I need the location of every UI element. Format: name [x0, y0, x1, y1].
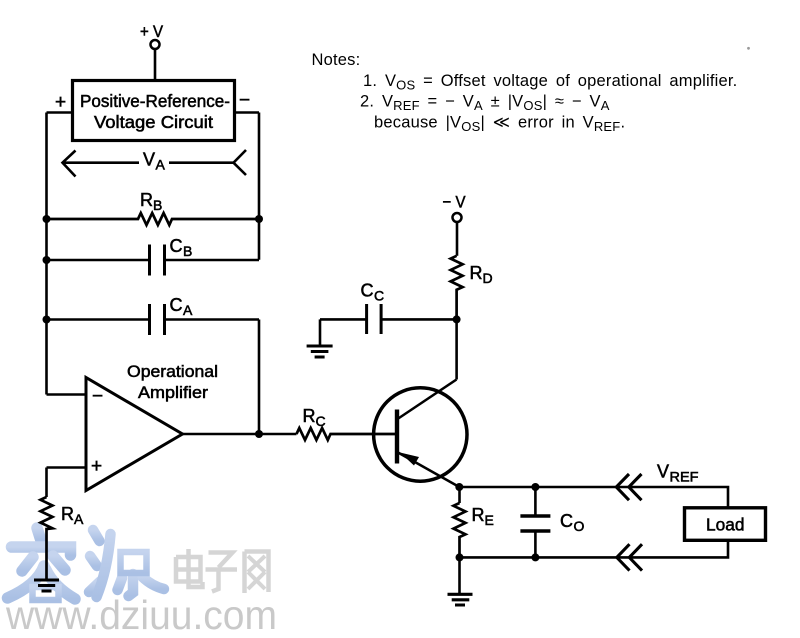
capacitor CO: [534, 487, 537, 557]
wire box right to rail: [235, 111, 260, 114]
wire op-amp output: [183, 433, 297, 436]
wire op-amp plus input: [47, 468, 87, 498]
svg-text:+: +: [91, 456, 102, 477]
svg-text:C: C: [361, 281, 374, 301]
svg-text:R: R: [470, 263, 483, 283]
svg-text:REF: REF: [670, 469, 699, 485]
resistor RC: [297, 428, 398, 440]
svg-text:R: R: [61, 504, 74, 524]
chevrons bottom rail: [617, 544, 642, 570]
svg-text:O: O: [574, 518, 585, 534]
resistor RD: [451, 256, 463, 320]
wire right rail upper: [258, 113, 261, 260]
svg-text:R: R: [140, 190, 153, 210]
svg-text:+ V: + V: [140, 22, 164, 41]
node +V terminal: [151, 40, 160, 49]
box load: [685, 508, 766, 541]
capacitor CC: [320, 318, 457, 321]
svg-text:C: C: [560, 511, 573, 531]
svg-text:R: R: [472, 505, 485, 525]
svg-text:E: E: [485, 512, 494, 528]
ground below CC: [307, 346, 333, 357]
wire emitter node down to RE: [458, 487, 461, 503]
svg-text:Positive-Reference-: Positive-Reference-: [80, 91, 230, 111]
box positive reference voltage circuit: [73, 81, 235, 141]
svg-text:V: V: [657, 462, 669, 482]
svg-text:A: A: [156, 157, 166, 173]
wire load to bottom rail: [460, 540, 729, 557]
wire CC left to ground: [319, 319, 322, 344]
svg-text:A: A: [183, 302, 193, 318]
wire op-amp minus input: [47, 393, 87, 396]
svg-text:R: R: [303, 406, 316, 426]
svg-text:Amplifier: Amplifier: [138, 383, 208, 402]
svg-text:because |VOS| ≪ error in VREF.: because |VOS| ≪ error in VREF.: [374, 114, 625, 135]
watermark 容: [8, 528, 76, 599]
ground below RA: [34, 580, 59, 591]
watermark 电子网: [176, 549, 269, 593]
wire left rail: [45, 113, 48, 395]
svg-text:Voltage Circuit: Voltage Circuit: [94, 112, 213, 132]
svg-text:−: −: [92, 386, 103, 407]
svg-text:+: +: [55, 92, 66, 113]
label +V: [55, 22, 745, 535]
svg-text:A: A: [74, 511, 84, 527]
op-amp U1: [86, 378, 183, 491]
ground below RE: [448, 594, 473, 605]
svg-text:V: V: [143, 150, 155, 170]
svg-text:C: C: [374, 288, 384, 304]
capacitor CA: [47, 318, 260, 321]
svg-text:C: C: [170, 236, 183, 256]
svg-text:Operational: Operational: [127, 362, 218, 381]
resistor RE: [454, 503, 466, 557]
svg-text:B: B: [183, 243, 192, 259]
chevrons top rail: [616, 474, 641, 500]
wire -V to RD: [456, 222, 459, 256]
svg-text:1. VOS = Offset voltage of ope: 1. VOS = Offset voltage of operational a…: [363, 72, 737, 93]
transistor Q1: [374, 388, 467, 481]
svg-text:Load: Load: [706, 515, 745, 535]
svg-text:www.dziuu.com: www.dziuu.com: [5, 592, 277, 638]
resistor RA: [41, 497, 53, 579]
svg-text:C: C: [316, 413, 326, 429]
resistor RB: [47, 213, 260, 225]
wire collector to RD node: [455, 319, 458, 380]
wire CA to output node: [258, 320, 261, 435]
svg-text:Notes:: Notes:: [312, 51, 361, 69]
node -V terminal: [453, 213, 462, 222]
node emitter junction: [455, 483, 463, 491]
svg-text:C: C: [170, 295, 183, 315]
capacitor CB: [47, 259, 260, 262]
wire top rail to load: [459, 487, 728, 508]
svg-text:D: D: [483, 270, 493, 286]
wire +V to box: [154, 49, 157, 81]
node VA dimension line: [63, 150, 247, 177]
wire box left to rail: [47, 111, 73, 114]
svg-text:−: −: [239, 90, 250, 111]
watermark 源: [89, 530, 164, 597]
svg-text:B: B: [153, 197, 162, 213]
svg-text:− V: − V: [443, 193, 467, 212]
wire RE to ground: [458, 557, 461, 593]
